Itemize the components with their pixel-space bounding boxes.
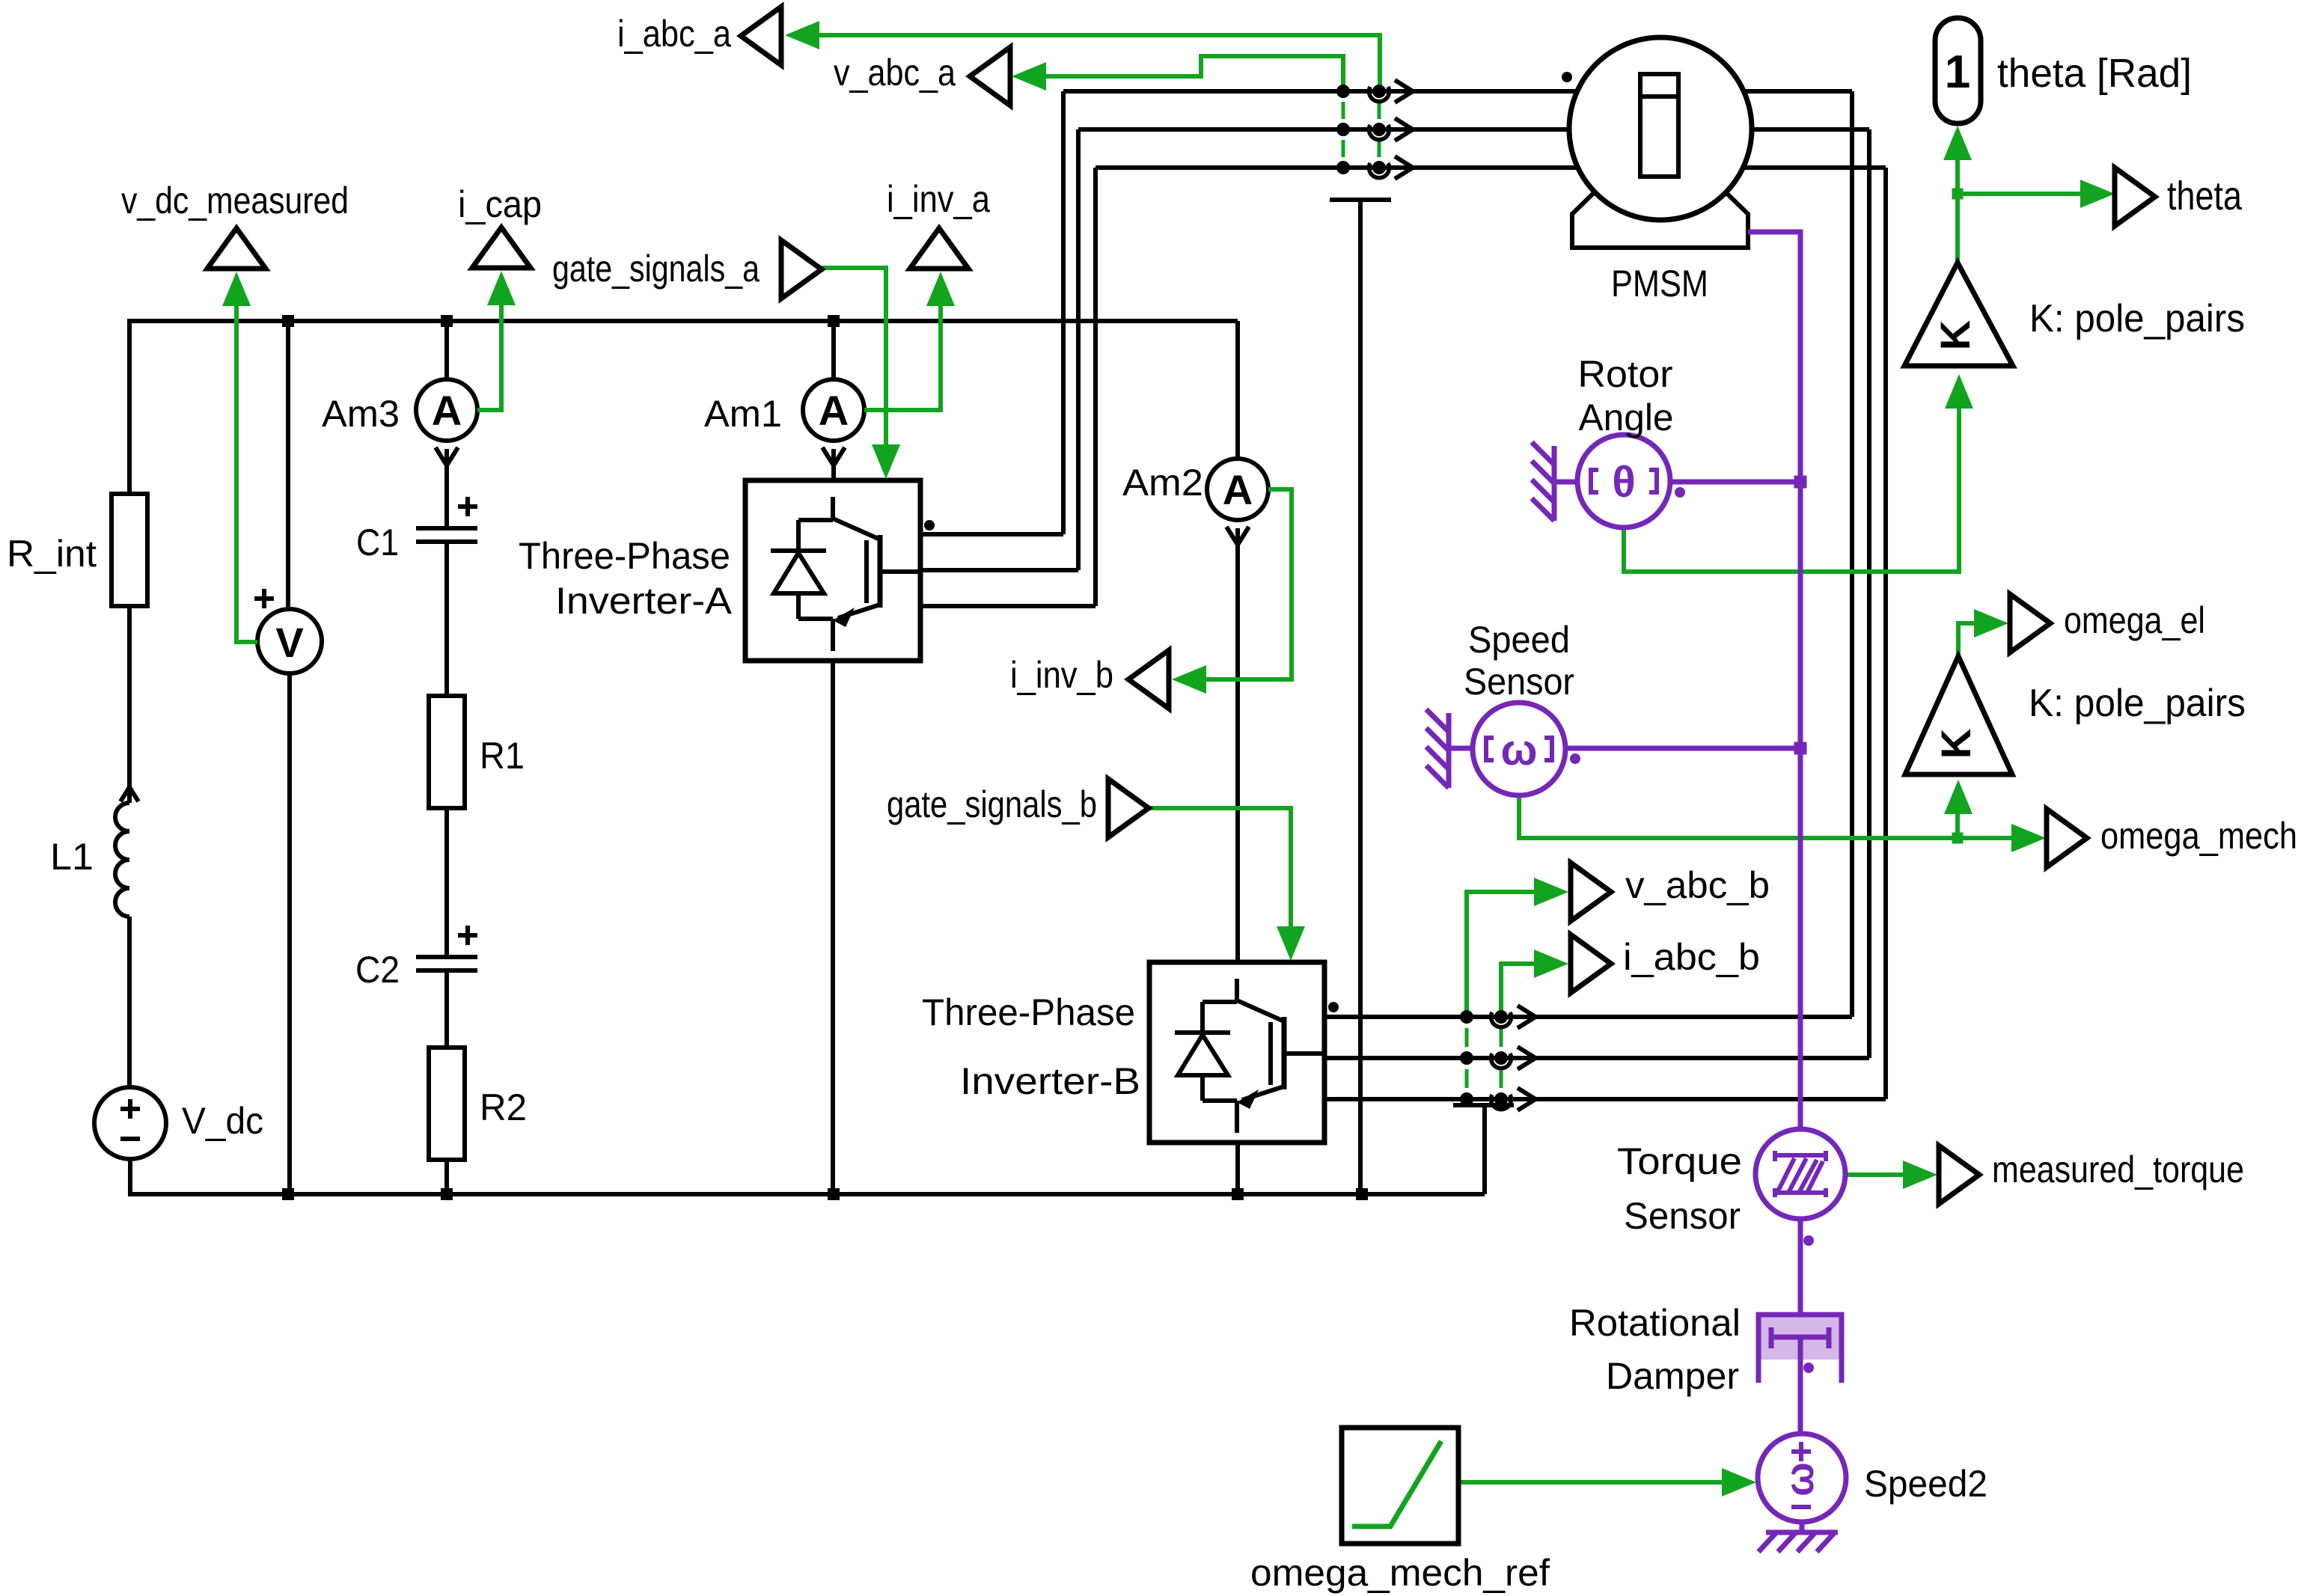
svg-text:A: A (1223, 466, 1253, 513)
svg-text:K: K (1932, 729, 1979, 759)
svg-text:V_dc: V_dc (182, 1100, 263, 1142)
svg-text:v_abc_a: v_abc_a (834, 52, 956, 94)
svg-text:ω: ω (1501, 726, 1538, 774)
svg-text:i_cap: i_cap (458, 183, 542, 225)
svg-text:v_dc_measured: v_dc_measured (121, 180, 349, 221)
svg-text:theta: theta (2167, 174, 2243, 218)
svg-text:A: A (432, 387, 462, 434)
svg-text:C1: C1 (356, 522, 399, 563)
svg-text:v_abc_b: v_abc_b (1625, 864, 1770, 906)
svg-text:C2: C2 (355, 949, 400, 991)
svg-text:L1: L1 (50, 836, 94, 878)
svg-text:i_inv_b: i_inv_b (1010, 654, 1113, 696)
svg-text:V: V (275, 619, 303, 666)
svg-text:measured_torque: measured_torque (1992, 1149, 2244, 1190)
svg-text:i_inv_a: i_inv_a (887, 178, 990, 220)
svg-text:omega_el: omega_el (2064, 599, 2205, 641)
svg-text:Am2: Am2 (1122, 462, 1203, 504)
svg-text:R1: R1 (480, 735, 525, 777)
svg-text:Damper: Damper (1606, 1355, 1739, 1397)
svg-text:Angle: Angle (1579, 397, 1674, 438)
svg-text:gate_signals_b: gate_signals_b (887, 783, 1097, 825)
svg-text:Three-Phase: Three-Phase (922, 991, 1135, 1033)
svg-text:Speed2: Speed2 (1864, 1463, 1987, 1505)
svg-text:gate_signals_a: gate_signals_a (552, 248, 760, 290)
svg-text:Am3: Am3 (322, 393, 400, 435)
svg-text:Torque: Torque (1617, 1140, 1742, 1182)
svg-text:θ: θ (1612, 458, 1635, 507)
svg-text:Inverter-A: Inverter-A (555, 580, 733, 622)
svg-text:R2: R2 (480, 1086, 527, 1128)
svg-text:omega_mech_ref: omega_mech_ref (1250, 1552, 1550, 1594)
svg-text:PMSM: PMSM (1611, 263, 1708, 305)
svg-text:theta [Rad]: theta [Rad] (1997, 51, 2192, 96)
svg-text:Sensor: Sensor (1624, 1195, 1741, 1237)
svg-text:Sensor: Sensor (1464, 661, 1574, 703)
svg-text:ω: ω (1777, 1462, 1822, 1496)
svg-text:K: pole_pairs: K: pole_pairs (2029, 682, 2246, 725)
svg-text:Rotor: Rotor (1578, 353, 1673, 395)
svg-text:i_abc_b: i_abc_b (1623, 936, 1760, 978)
svg-text:Inverter-B: Inverter-B (960, 1060, 1140, 1102)
svg-text:Am1: Am1 (704, 393, 782, 435)
svg-text:1: 1 (1945, 46, 1970, 98)
svg-text:A: A (819, 387, 849, 434)
svg-text:i_abc_a: i_abc_a (617, 13, 731, 55)
svg-text:Rotational: Rotational (1569, 1302, 1741, 1344)
svg-text:Three-Phase: Three-Phase (519, 535, 730, 577)
svg-text:K: K (1931, 320, 1978, 350)
svg-text:Speed: Speed (1468, 619, 1570, 661)
svg-text:R_int: R_int (7, 533, 97, 575)
svg-text:K: pole_pairs: K: pole_pairs (2029, 297, 2245, 340)
svg-text:omega_mech: omega_mech (2100, 815, 2297, 857)
